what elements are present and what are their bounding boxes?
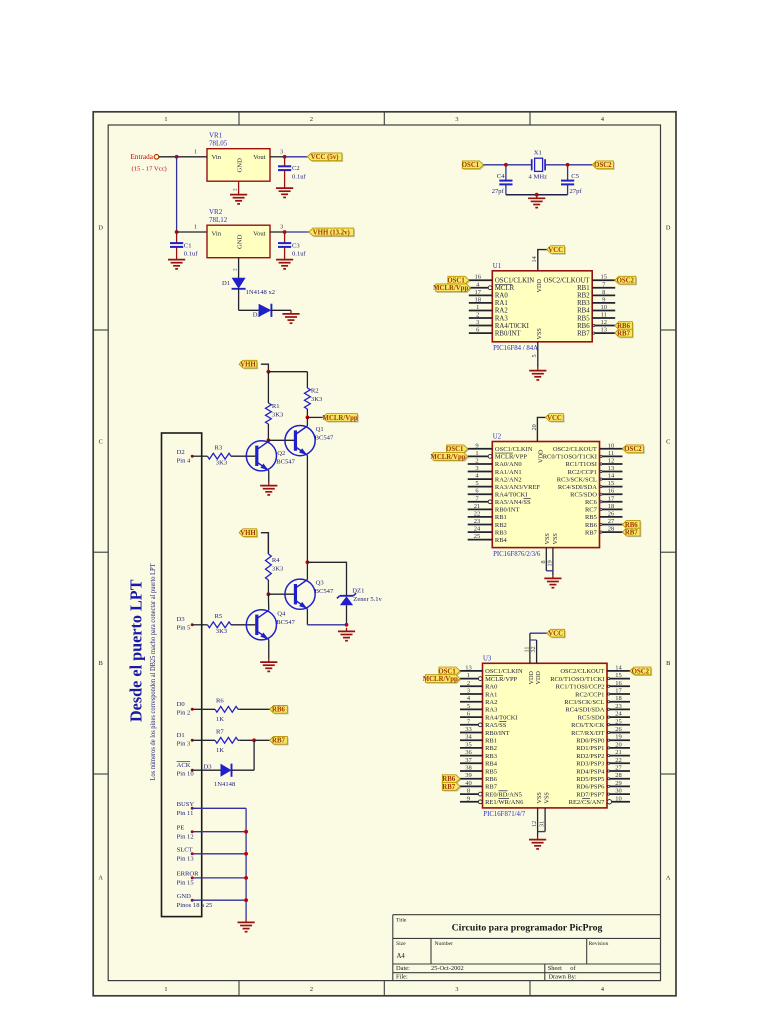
svg-text:8: 8 bbox=[467, 788, 470, 795]
svg-text:Drawn By:: Drawn By: bbox=[548, 974, 576, 981]
svg-text:RA4/T0CKI: RA4/T0CKI bbox=[495, 323, 530, 330]
svg-text:12: 12 bbox=[608, 457, 615, 464]
svg-text:D2: D2 bbox=[177, 449, 185, 456]
svg-text:22: 22 bbox=[615, 757, 622, 764]
svg-text:RC7/RX/DT: RC7/RX/DT bbox=[571, 730, 604, 737]
svg-text:B: B bbox=[666, 660, 670, 667]
svg-text:Vin: Vin bbox=[212, 154, 222, 161]
svg-text:0.1uf: 0.1uf bbox=[184, 250, 199, 257]
svg-text:2: 2 bbox=[310, 116, 313, 123]
svg-text:RB0/INT: RB0/INT bbox=[495, 507, 520, 514]
svg-text:OSC1/CLKIN: OSC1/CLKIN bbox=[495, 446, 533, 453]
svg-text:Pin 10: Pin 10 bbox=[177, 771, 195, 778]
svg-text:OSC2: OSC2 bbox=[617, 278, 635, 285]
svg-text:RB5: RB5 bbox=[577, 315, 590, 322]
svg-text:2: 2 bbox=[310, 986, 313, 993]
svg-text:1: 1 bbox=[164, 116, 167, 123]
svg-text:13: 13 bbox=[608, 465, 615, 472]
svg-text:RB7: RB7 bbox=[585, 529, 598, 536]
svg-text:23: 23 bbox=[615, 703, 622, 710]
svg-text:Desde el puerto LPT: Desde el puerto LPT bbox=[127, 579, 146, 722]
svg-text:Pin 3: Pin 3 bbox=[177, 741, 191, 748]
svg-text:OSC1/CLKIN: OSC1/CLKIN bbox=[495, 278, 534, 285]
svg-text:25: 25 bbox=[474, 533, 481, 540]
svg-text:3K3: 3K3 bbox=[216, 628, 228, 635]
svg-text:10: 10 bbox=[608, 442, 615, 449]
svg-text:3K3: 3K3 bbox=[272, 565, 284, 572]
svg-text:DZ1: DZ1 bbox=[352, 588, 364, 595]
svg-text:VHH: VHH bbox=[240, 530, 256, 537]
svg-text:RA0: RA0 bbox=[495, 293, 508, 300]
svg-text:RD4/PSP4: RD4/PSP4 bbox=[576, 768, 605, 775]
svg-text:RA1: RA1 bbox=[485, 691, 497, 698]
svg-text:MCLR/Vpp: MCLR/Vpp bbox=[430, 454, 465, 461]
svg-text:1: 1 bbox=[476, 304, 479, 311]
svg-text:1K: 1K bbox=[216, 747, 224, 754]
svg-text:R1: R1 bbox=[272, 403, 280, 410]
svg-text:C3: C3 bbox=[292, 242, 300, 249]
svg-text:PE: PE bbox=[177, 824, 185, 831]
svg-text:RA3/AN3/VREF: RA3/AN3/VREF bbox=[495, 484, 541, 491]
svg-text:D1: D1 bbox=[222, 280, 230, 287]
svg-text:RE0/RD/AN5: RE0/RD/AN5 bbox=[485, 791, 522, 798]
svg-text:4 MHz: 4 MHz bbox=[529, 174, 548, 181]
svg-text:RA4/T0CKI: RA4/T0CKI bbox=[485, 714, 517, 721]
svg-text:2: 2 bbox=[467, 680, 470, 687]
svg-text:5: 5 bbox=[475, 480, 478, 487]
svg-text:Los números de los pines corre: Los números de los pines corresponden al… bbox=[149, 563, 157, 781]
svg-text:ACK: ACK bbox=[177, 762, 191, 769]
svg-text:9: 9 bbox=[602, 296, 605, 303]
svg-text:Pinos 18 a 25: Pinos 18 a 25 bbox=[177, 902, 213, 909]
svg-text:D0: D0 bbox=[177, 701, 186, 708]
svg-text:28: 28 bbox=[615, 772, 622, 779]
svg-text:Q3: Q3 bbox=[316, 580, 325, 587]
svg-text:1: 1 bbox=[164, 986, 167, 993]
svg-text:3K3: 3K3 bbox=[216, 459, 228, 466]
svg-text:GND: GND bbox=[177, 893, 192, 900]
svg-text:Pin 11: Pin 11 bbox=[177, 810, 194, 817]
svg-text:21: 21 bbox=[474, 503, 481, 510]
svg-text:24: 24 bbox=[474, 526, 481, 533]
svg-text:MCLR/VPP: MCLR/VPP bbox=[495, 454, 528, 461]
svg-text:21: 21 bbox=[615, 749, 622, 756]
svg-text:Pin 5: Pin 5 bbox=[177, 625, 191, 632]
svg-text:RA2: RA2 bbox=[495, 308, 508, 315]
svg-text:29: 29 bbox=[615, 780, 622, 787]
svg-text:20: 20 bbox=[531, 424, 538, 430]
svg-text:VCC: VCC bbox=[548, 631, 563, 638]
svg-text:GND: GND bbox=[237, 234, 244, 249]
svg-text:VDD: VDD bbox=[536, 279, 543, 293]
svg-text:RC7: RC7 bbox=[585, 507, 598, 514]
svg-text:11: 11 bbox=[608, 450, 614, 457]
svg-text:16: 16 bbox=[615, 680, 622, 687]
svg-text:RB2: RB2 bbox=[495, 522, 507, 529]
svg-text:RD0/PSP0: RD0/PSP0 bbox=[576, 738, 604, 745]
svg-text:17: 17 bbox=[474, 289, 481, 296]
svg-text:C: C bbox=[666, 438, 670, 445]
svg-text:OSC2: OSC2 bbox=[594, 162, 612, 169]
svg-text:19: 19 bbox=[546, 560, 553, 566]
svg-text:13: 13 bbox=[600, 327, 607, 334]
svg-text:RB7: RB7 bbox=[442, 784, 455, 791]
svg-text:VSS: VSS bbox=[543, 792, 550, 804]
svg-text:5: 5 bbox=[531, 354, 538, 357]
svg-text:13: 13 bbox=[465, 664, 472, 671]
svg-text:23: 23 bbox=[474, 518, 481, 525]
svg-text:14: 14 bbox=[608, 473, 615, 480]
svg-text:Pin 13: Pin 13 bbox=[177, 855, 195, 862]
svg-text:BUSY: BUSY bbox=[177, 801, 195, 808]
svg-text:25-Oct-2002: 25-Oct-2002 bbox=[431, 965, 464, 972]
svg-text:RD7/PSP7: RD7/PSP7 bbox=[576, 791, 605, 798]
svg-text:RB1: RB1 bbox=[485, 738, 497, 745]
svg-text:RE2/CS/AN7: RE2/CS/AN7 bbox=[569, 799, 606, 806]
svg-text:22: 22 bbox=[474, 510, 481, 517]
svg-text:25: 25 bbox=[615, 718, 622, 725]
svg-text:R5: R5 bbox=[215, 613, 223, 620]
svg-text:RD3/PSP3: RD3/PSP3 bbox=[576, 761, 604, 768]
svg-text:0.1uf: 0.1uf bbox=[292, 173, 307, 180]
svg-text:RA4/T0CKI: RA4/T0CKI bbox=[495, 492, 528, 499]
svg-text:R7: R7 bbox=[216, 728, 224, 735]
svg-text:RA0/AN0: RA0/AN0 bbox=[495, 461, 522, 468]
svg-text:30: 30 bbox=[615, 788, 622, 795]
svg-text:D3: D3 bbox=[203, 763, 212, 770]
svg-text:Vout: Vout bbox=[253, 231, 266, 238]
svg-text:RA0: RA0 bbox=[485, 684, 497, 691]
svg-text:D: D bbox=[98, 225, 103, 232]
svg-text:VHH (13.2v): VHH (13.2v) bbox=[313, 229, 350, 236]
svg-text:40: 40 bbox=[465, 780, 472, 787]
svg-text:1N4148: 1N4148 bbox=[214, 781, 236, 788]
svg-text:U2: U2 bbox=[493, 434, 502, 441]
svg-text:RB3: RB3 bbox=[485, 753, 497, 760]
svg-text:VSS: VSS bbox=[536, 792, 543, 804]
svg-text:1: 1 bbox=[475, 450, 478, 457]
svg-text:15: 15 bbox=[600, 274, 607, 281]
svg-text:3: 3 bbox=[476, 319, 479, 326]
svg-text:of: of bbox=[570, 965, 576, 972]
svg-text:RA3: RA3 bbox=[495, 315, 508, 322]
svg-text:RC2/CCP1: RC2/CCP1 bbox=[575, 691, 604, 698]
svg-text:RD5/PSP5: RD5/PSP5 bbox=[576, 776, 604, 783]
svg-text:12: 12 bbox=[531, 821, 538, 827]
svg-text:B: B bbox=[99, 660, 103, 667]
svg-text:RB0/INT: RB0/INT bbox=[495, 330, 522, 337]
svg-text:VR2: VR2 bbox=[209, 208, 223, 216]
svg-text:Zener 5.1v: Zener 5.1v bbox=[353, 596, 382, 603]
svg-text:20: 20 bbox=[615, 741, 622, 748]
svg-text:Pin 2: Pin 2 bbox=[177, 710, 191, 717]
svg-text:D3: D3 bbox=[177, 616, 186, 623]
svg-text:BC547: BC547 bbox=[315, 435, 334, 442]
svg-text:OSC2/CLKOUT: OSC2/CLKOUT bbox=[553, 446, 597, 453]
svg-text:27: 27 bbox=[608, 518, 615, 525]
svg-text:RB6: RB6 bbox=[272, 707, 285, 714]
svg-text:RC0/T1OSO/T1CKI: RC0/T1OSO/T1CKI bbox=[543, 454, 597, 461]
svg-text:2: 2 bbox=[476, 312, 479, 319]
svg-text:RB6: RB6 bbox=[442, 776, 455, 783]
svg-text:1: 1 bbox=[467, 672, 470, 679]
svg-text:33: 33 bbox=[465, 726, 472, 733]
svg-text:12: 12 bbox=[600, 319, 607, 326]
svg-text:9: 9 bbox=[467, 795, 470, 802]
svg-text:RC3/SCK/SCL: RC3/SCK/SCL bbox=[564, 699, 604, 706]
svg-text:MCLR/Vpp: MCLR/Vpp bbox=[323, 415, 358, 422]
svg-text:D1: D1 bbox=[177, 732, 185, 739]
svg-text:RB2: RB2 bbox=[485, 745, 497, 752]
svg-text:RD2/PSP2: RD2/PSP2 bbox=[576, 753, 604, 760]
svg-text:A: A bbox=[666, 875, 671, 882]
svg-text:24: 24 bbox=[615, 711, 622, 718]
svg-text:Pin 12: Pin 12 bbox=[177, 833, 194, 840]
svg-text:36: 36 bbox=[465, 749, 472, 756]
svg-text:18: 18 bbox=[474, 296, 481, 303]
svg-text:27: 27 bbox=[615, 765, 622, 772]
svg-text:35: 35 bbox=[465, 741, 472, 748]
svg-text:RB2: RB2 bbox=[577, 293, 590, 300]
svg-text:VDD: VDD bbox=[535, 671, 542, 685]
svg-text:RB7: RB7 bbox=[272, 738, 285, 745]
svg-text:37: 37 bbox=[465, 757, 472, 764]
svg-text:Q4: Q4 bbox=[277, 611, 286, 618]
svg-text:16: 16 bbox=[474, 274, 481, 281]
svg-text:RE1/WR/AN6: RE1/WR/AN6 bbox=[485, 799, 524, 806]
svg-text:14: 14 bbox=[531, 256, 538, 262]
svg-text:GND: GND bbox=[237, 158, 244, 173]
svg-text:3K3: 3K3 bbox=[272, 412, 284, 419]
svg-text:3K3: 3K3 bbox=[311, 396, 323, 403]
svg-text:RC6/TX/CK: RC6/TX/CK bbox=[571, 722, 605, 729]
svg-text:Pin 15: Pin 15 bbox=[177, 880, 195, 887]
svg-text:17: 17 bbox=[615, 688, 622, 695]
svg-text:MCLR/Vpp: MCLR/Vpp bbox=[423, 676, 458, 683]
svg-text:RB7: RB7 bbox=[577, 330, 590, 337]
svg-text:39: 39 bbox=[465, 772, 472, 779]
svg-text:MCLR: MCLR bbox=[495, 285, 515, 292]
svg-text:34: 34 bbox=[465, 734, 472, 741]
svg-text:OSC2/CLKOUT: OSC2/CLKOUT bbox=[544, 278, 591, 285]
svg-text:17: 17 bbox=[608, 495, 615, 502]
svg-text:RC5/SDO: RC5/SDO bbox=[578, 714, 605, 721]
svg-text:Circuito para programador PicP: Circuito para programador PicProg bbox=[452, 923, 603, 934]
svg-text:PIC16F84 / 84A: PIC16F84 / 84A bbox=[493, 345, 538, 352]
svg-text:RA5/SS: RA5/SS bbox=[485, 722, 507, 729]
svg-text:Pin 4: Pin 4 bbox=[177, 457, 191, 464]
svg-text:VR1: VR1 bbox=[209, 132, 223, 140]
svg-text:RA2/AN2: RA2/AN2 bbox=[495, 476, 522, 483]
svg-text:0.1uf: 0.1uf bbox=[292, 250, 307, 257]
svg-text:3: 3 bbox=[455, 116, 458, 123]
svg-text:26: 26 bbox=[615, 726, 622, 733]
svg-text:RB1: RB1 bbox=[577, 285, 589, 292]
svg-text:1K: 1K bbox=[216, 716, 224, 723]
svg-text:19: 19 bbox=[615, 734, 622, 741]
svg-text:RC1/T1OSI: RC1/T1OSI bbox=[565, 461, 596, 468]
svg-text:VSS: VSS bbox=[552, 533, 559, 545]
svg-text:Vout: Vout bbox=[253, 154, 266, 161]
svg-text:15: 15 bbox=[608, 480, 615, 487]
svg-text:OSC1: OSC1 bbox=[462, 162, 480, 169]
svg-text:2: 2 bbox=[233, 268, 239, 271]
svg-text:RB4: RB4 bbox=[577, 308, 590, 315]
svg-text:Sheet: Sheet bbox=[548, 965, 562, 972]
svg-text:2: 2 bbox=[475, 457, 478, 464]
svg-text:OSC2: OSC2 bbox=[632, 668, 650, 675]
svg-text:VCC: VCC bbox=[548, 247, 563, 254]
svg-text:D2: D2 bbox=[253, 311, 261, 318]
svg-text:VHH: VHH bbox=[240, 362, 256, 369]
svg-text:5: 5 bbox=[467, 703, 470, 710]
svg-text:RD1/PSP1: RD1/PSP1 bbox=[576, 745, 604, 752]
svg-text:VSS: VSS bbox=[544, 533, 551, 545]
svg-text:RB7: RB7 bbox=[485, 784, 498, 791]
svg-text:3: 3 bbox=[280, 224, 283, 231]
svg-text:RC2/CCP1: RC2/CCP1 bbox=[568, 469, 597, 476]
svg-text:18: 18 bbox=[608, 503, 615, 510]
svg-text:X1: X1 bbox=[534, 149, 542, 156]
svg-text:OSC1/CLKIN: OSC1/CLKIN bbox=[485, 668, 523, 675]
svg-text:Number: Number bbox=[435, 941, 453, 947]
svg-text:OSC2/CLKOUT: OSC2/CLKOUT bbox=[560, 668, 604, 675]
svg-text:R4: R4 bbox=[272, 557, 280, 564]
svg-text:A: A bbox=[98, 875, 103, 882]
svg-text:U1: U1 bbox=[493, 263, 501, 270]
svg-text:OSC1: OSC1 bbox=[438, 668, 456, 675]
svg-text:1: 1 bbox=[194, 148, 197, 155]
svg-text:1N4148 x2: 1N4148 x2 bbox=[246, 289, 276, 296]
svg-text:R3: R3 bbox=[215, 445, 223, 452]
svg-text:RB6: RB6 bbox=[577, 323, 590, 330]
svg-text:R2: R2 bbox=[311, 387, 319, 394]
svg-text:26: 26 bbox=[608, 510, 615, 517]
svg-text:15: 15 bbox=[615, 672, 622, 679]
svg-text:RB5: RB5 bbox=[585, 514, 597, 521]
svg-text:RC4/SDI/SDA: RC4/SDI/SDA bbox=[558, 484, 597, 491]
svg-text:38: 38 bbox=[465, 765, 472, 772]
svg-text:ERROR: ERROR bbox=[177, 871, 200, 878]
svg-text:RA1/AN1: RA1/AN1 bbox=[495, 469, 522, 476]
svg-text:10: 10 bbox=[600, 304, 607, 311]
svg-text:10: 10 bbox=[615, 795, 622, 802]
svg-text:U3: U3 bbox=[483, 656, 492, 663]
svg-text:RC3/SCK/SCL: RC3/SCK/SCL bbox=[557, 476, 597, 483]
svg-text:Revision: Revision bbox=[589, 941, 609, 947]
svg-text:31: 31 bbox=[539, 821, 546, 827]
svg-text:SLCT: SLCT bbox=[177, 846, 193, 853]
svg-text:BC547: BC547 bbox=[276, 619, 295, 626]
svg-text:RB1: RB1 bbox=[495, 514, 507, 521]
svg-text:C: C bbox=[99, 438, 103, 445]
svg-text:78L12: 78L12 bbox=[209, 216, 228, 224]
svg-text:A4: A4 bbox=[397, 953, 406, 960]
svg-text:27pf: 27pf bbox=[492, 188, 505, 195]
svg-text:28: 28 bbox=[608, 526, 615, 533]
svg-text:(15 - 17 Vcc): (15 - 17 Vcc) bbox=[132, 166, 167, 173]
svg-text:R6: R6 bbox=[216, 697, 224, 704]
svg-text:MCLR/Vpp: MCLR/Vpp bbox=[433, 285, 468, 292]
svg-text:RB4: RB4 bbox=[495, 537, 508, 544]
svg-text:PIC16F871/4/7: PIC16F871/4/7 bbox=[483, 811, 526, 818]
svg-text:11: 11 bbox=[601, 312, 607, 319]
svg-text:RA3: RA3 bbox=[485, 707, 497, 714]
svg-text:RA1: RA1 bbox=[495, 300, 508, 307]
svg-text:MCLR/VPP: MCLR/VPP bbox=[485, 676, 518, 683]
svg-text:RB6: RB6 bbox=[585, 522, 598, 529]
svg-text:Q2: Q2 bbox=[277, 450, 285, 457]
svg-text:BC547: BC547 bbox=[315, 588, 334, 595]
svg-text:Entrada: Entrada bbox=[131, 153, 154, 161]
svg-text:RB7: RB7 bbox=[625, 529, 638, 536]
svg-text:RA2: RA2 bbox=[485, 699, 497, 706]
svg-text:27pf: 27pf bbox=[570, 188, 583, 195]
svg-text:14: 14 bbox=[615, 664, 622, 671]
svg-text:RA5/AN4/SS: RA5/AN4/SS bbox=[495, 499, 531, 506]
svg-text:D: D bbox=[666, 225, 671, 232]
svg-text:1: 1 bbox=[194, 224, 197, 231]
svg-text:BC547: BC547 bbox=[276, 459, 295, 466]
svg-text:Size: Size bbox=[396, 941, 406, 947]
svg-text:RB5: RB5 bbox=[485, 768, 497, 775]
svg-text:C2: C2 bbox=[292, 165, 300, 172]
svg-text:C1: C1 bbox=[184, 242, 192, 249]
svg-text:3: 3 bbox=[467, 688, 470, 695]
svg-text:Date:: Date: bbox=[396, 965, 410, 972]
svg-text:RC1/T1OSI/CCP2: RC1/T1OSI/CCP2 bbox=[556, 684, 605, 691]
svg-text:RC4/SDI/SDA: RC4/SDI/SDA bbox=[565, 707, 604, 714]
svg-text:RB3: RB3 bbox=[495, 529, 507, 536]
svg-text:18: 18 bbox=[615, 695, 622, 702]
svg-text:RD6/PSP6: RD6/PSP6 bbox=[576, 784, 605, 791]
svg-text:OSC2: OSC2 bbox=[624, 446, 642, 453]
svg-text:Vin: Vin bbox=[212, 231, 222, 238]
svg-text:32: 32 bbox=[530, 646, 537, 652]
svg-text:RB0/INT: RB0/INT bbox=[485, 730, 510, 737]
svg-text:3: 3 bbox=[475, 465, 478, 472]
svg-text:RC5/SDO: RC5/SDO bbox=[570, 492, 597, 499]
svg-text:RB4: RB4 bbox=[485, 761, 498, 768]
svg-text:Title: Title bbox=[396, 917, 407, 923]
svg-text:3: 3 bbox=[455, 986, 458, 993]
svg-text:RC6: RC6 bbox=[585, 499, 598, 506]
svg-text:16: 16 bbox=[608, 488, 615, 495]
svg-text:C4: C4 bbox=[497, 173, 505, 180]
svg-text:VCC: VCC bbox=[547, 415, 562, 422]
svg-text:File:: File: bbox=[396, 974, 408, 981]
svg-text:78L05: 78L05 bbox=[209, 139, 228, 147]
svg-text:RB6: RB6 bbox=[485, 776, 498, 783]
svg-text:8: 8 bbox=[602, 289, 605, 296]
svg-text:RC0/T1OSO/T1CKI: RC0/T1OSO/T1CKI bbox=[550, 676, 604, 683]
svg-text:Q1: Q1 bbox=[316, 426, 324, 433]
svg-text:PIC16F876/2/3/6: PIC16F876/2/3/6 bbox=[493, 551, 541, 558]
svg-text:3: 3 bbox=[280, 148, 283, 155]
svg-text:2: 2 bbox=[233, 188, 239, 191]
svg-text:VCC (5v): VCC (5v) bbox=[311, 154, 339, 161]
svg-text:9: 9 bbox=[475, 442, 478, 449]
svg-text:RB3: RB3 bbox=[577, 300, 590, 307]
svg-text:VDD: VDD bbox=[537, 449, 544, 463]
svg-text:RB7: RB7 bbox=[617, 331, 630, 338]
svg-text:VSS: VSS bbox=[536, 328, 543, 340]
svg-text:C5: C5 bbox=[571, 173, 579, 180]
